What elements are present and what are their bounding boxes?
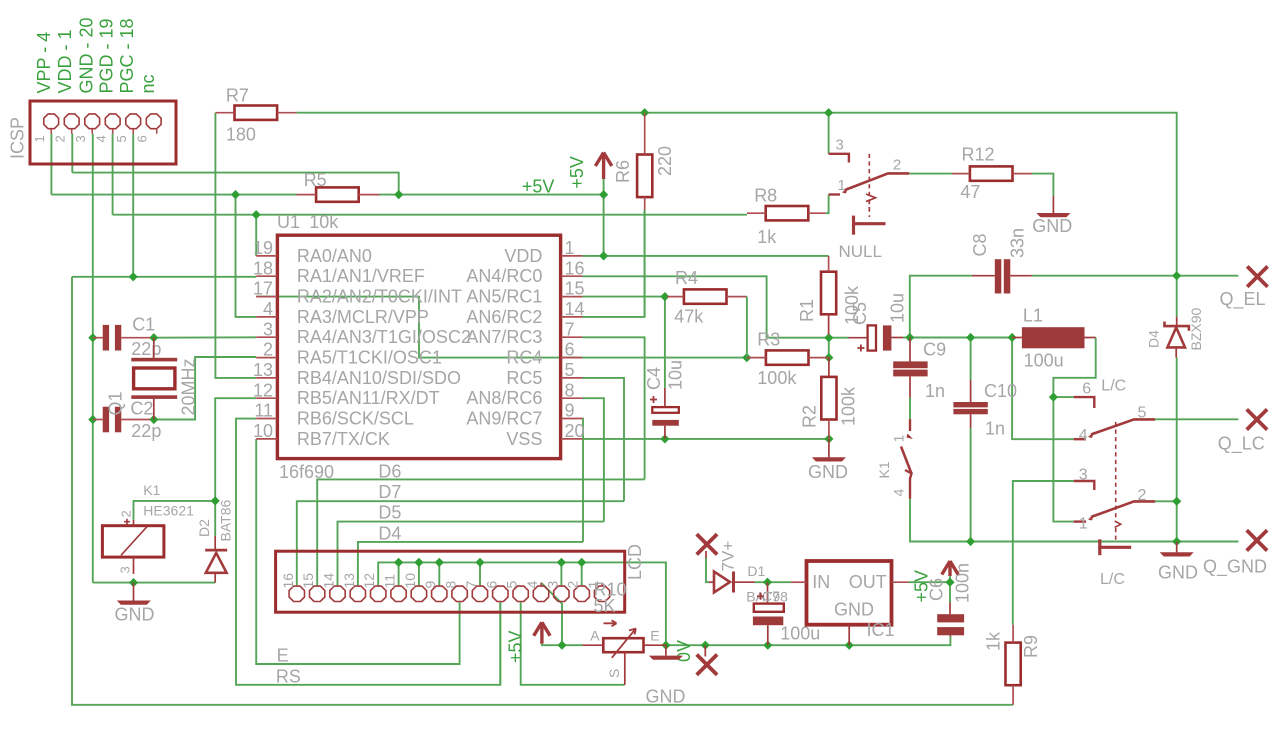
svg-text:L/C: L/C	[1100, 571, 1125, 588]
svg-text:15: 15	[565, 279, 585, 299]
wire GND rail at relay	[93, 582, 216, 584]
svg-text:4: 4	[94, 135, 109, 142]
junction	[1172, 497, 1181, 506]
wire MCLR drop from VPP net	[236, 195, 257, 317]
svg-text:+5V: +5V	[506, 630, 526, 663]
svg-text:D4: D4	[378, 524, 401, 544]
wire R12 right to GND	[1032, 174, 1054, 196]
svg-text:6: 6	[565, 340, 575, 360]
svg-text:20MHz: 20MHz	[179, 358, 199, 415]
switch NULL	[829, 154, 910, 235]
junction	[394, 558, 403, 567]
wire D7 line to LCD pin16	[297, 501, 624, 585]
svg-text:Q_EL: Q_EL	[1220, 289, 1266, 310]
wire node across to L1	[910, 337, 1012, 339]
wire PGD/RA0 net to R8	[113, 214, 747, 216]
supply +5V arrow at IC1	[942, 561, 958, 576]
junction	[394, 190, 403, 199]
wire RB7 pin10 to E line	[256, 439, 459, 664]
resistor R9	[1006, 625, 1021, 705]
svg-text:19: 19	[253, 238, 273, 258]
net 7V+	[697, 534, 717, 558]
svg-text:AN6/RC2: AN6/RC2	[466, 307, 542, 327]
junction	[763, 641, 772, 650]
wire LCD pin4 diagonal to +5V node	[541, 583, 562, 645]
wire AN5 pin15 to R4/C4	[583, 297, 665, 388]
svg-text:D6: D6	[378, 462, 401, 482]
wire NULL pin3 drop	[828, 113, 830, 154]
svg-text:Q_GND: Q_GND	[1203, 557, 1267, 578]
svg-text:10k: 10k	[309, 212, 339, 232]
svg-text:8: 8	[443, 581, 459, 589]
svg-text:RC5: RC5	[506, 368, 542, 388]
junction	[252, 210, 261, 219]
regulator IC1 box	[807, 561, 892, 625]
wire LCD bus stub	[438, 562, 440, 585]
junction	[966, 537, 975, 546]
svg-text:R8: R8	[754, 186, 777, 206]
svg-text:C4: C4	[644, 367, 664, 390]
svg-text:5: 5	[504, 581, 520, 589]
svg-text:9: 9	[422, 581, 438, 589]
junction	[824, 333, 833, 342]
svg-text:GND: GND	[1158, 563, 1198, 583]
connector LCD pads	[289, 583, 610, 602]
svg-text:1: 1	[32, 135, 47, 142]
svg-text:GND: GND	[808, 462, 848, 482]
svg-text:14: 14	[321, 573, 337, 589]
wire C9 down to K1 contact	[909, 376, 911, 397]
junction	[905, 333, 914, 342]
svg-text:C7: C7	[762, 588, 780, 604]
junction	[129, 578, 138, 587]
wire L1 right loop to LC switch	[1053, 338, 1095, 398]
svg-text:6: 6	[135, 135, 150, 142]
svg-text:100k: 100k	[757, 368, 797, 388]
wire +5V arrow to pot A	[542, 644, 583, 645]
wire C10 down to rail	[970, 338, 972, 381]
wire LCD pin6 down to RS line	[499, 602, 501, 685]
wire top +5V rail from R7 to right edge	[297, 113, 1177, 317]
svg-text:AN5/RC1: AN5/RC1	[466, 287, 542, 307]
wire R7 left vertical down to RB4 pin13	[215, 113, 256, 378]
labels ICSP pin nets	[34, 17, 158, 93]
svg-text:17: 17	[253, 279, 273, 299]
wire LCD pin5 down to pot wiper	[521, 602, 625, 685]
wire VDD net across to R5 right	[72, 173, 398, 195]
svg-text:5K: 5K	[594, 596, 616, 616]
svg-text:7: 7	[463, 581, 479, 589]
svg-text:BZX90: BZX90	[1188, 307, 1204, 350]
ground GND pot	[649, 645, 683, 660]
svg-text:4: 4	[263, 299, 273, 319]
svg-text:E: E	[650, 628, 659, 644]
svg-text:RA0/AN0: RA0/AN0	[297, 246, 372, 266]
capacitor C10	[953, 402, 987, 414]
wire NULL pin2 to R12	[909, 173, 952, 175]
svg-text:33n: 33n	[1008, 228, 1028, 258]
svg-text:Q_LC: Q_LC	[1218, 434, 1265, 455]
wire R4 right down to R3 node	[746, 297, 748, 358]
wire LCD bus stub	[418, 562, 420, 585]
wire pot E ground rail to C6	[666, 636, 951, 645]
junction	[845, 641, 854, 650]
IC1 pin GND stub	[848, 625, 850, 646]
switch L/C lower	[1074, 422, 1155, 555]
junction	[149, 333, 158, 342]
svg-text:RB6/SCK/SCL: RB6/SCK/SCL	[297, 409, 414, 429]
junction	[88, 415, 97, 424]
svg-text:2: 2	[893, 157, 901, 174]
wire ICSP pin3 GND down	[92, 134, 94, 583]
capacitor C8	[972, 259, 1032, 293]
svg-text:OUT: OUT	[849, 572, 887, 592]
junction	[599, 251, 608, 260]
capacitor C7	[753, 582, 784, 645]
svg-text:6: 6	[1082, 381, 1091, 398]
svg-text:+5V: +5V	[912, 570, 932, 603]
svg-text:220: 220	[655, 146, 675, 176]
diode D1	[709, 572, 755, 593]
junction	[557, 641, 566, 650]
svg-text:11: 11	[254, 401, 273, 421]
wire LC pin6 stub	[1053, 396, 1073, 398]
connector LCD box	[276, 551, 625, 612]
svg-text:nc: nc	[138, 74, 158, 93]
IC1 pin IN stub	[791, 581, 807, 583]
svg-text:RB7/TX/CK: RB7/TX/CK	[297, 429, 390, 449]
wire ICSP pin2 VDD down	[71, 134, 73, 173]
svg-text:11: 11	[382, 574, 398, 589]
ground GND relay	[117, 583, 151, 605]
capacitor C9	[893, 338, 927, 377]
svg-text:GND - 20: GND - 20	[77, 17, 97, 93]
wire ICSP pin1 VPP down	[50, 134, 52, 195]
svg-text:E: E	[277, 646, 289, 666]
svg-text:R1: R1	[797, 299, 817, 322]
ground GND Q_GND	[1160, 542, 1194, 557]
svg-text:47k: 47k	[674, 306, 704, 326]
svg-text:U1: U1	[277, 212, 300, 232]
svg-text:RA2/AN2/T0CKI/INT: RA2/AN2/T0CKI/INT	[297, 287, 462, 307]
svg-text:GND: GND	[1032, 216, 1072, 236]
svg-text:AN7/RC3: AN7/RC3	[466, 327, 542, 347]
junction	[414, 558, 423, 567]
IC1 pin OUT stub	[892, 581, 910, 583]
wire D4 line to LCD pin13	[358, 542, 583, 586]
resistor R1	[821, 256, 836, 335]
svg-text:12: 12	[361, 573, 377, 589]
wire AN9 pin9 to D4 line	[582, 419, 585, 542]
junction	[557, 558, 566, 567]
connector ICSP box	[30, 101, 176, 164]
wire LCD bus stub	[560, 562, 562, 585]
wire VSS pin20 to C4 and R2 ground node	[583, 438, 829, 440]
capacitor C1	[93, 325, 150, 351]
wire +5V node vertical	[949, 575, 951, 603]
svg-text:GND: GND	[834, 600, 874, 620]
svg-text:R5: R5	[304, 170, 327, 190]
junction	[149, 415, 158, 424]
svg-text:10: 10	[402, 573, 418, 589]
svg-text:RB5/AN11/RX/DT: RB5/AN11/RX/DT	[297, 388, 440, 408]
svg-text:K1: K1	[876, 461, 892, 478]
svg-text:A: A	[590, 628, 600, 644]
junction	[660, 292, 669, 301]
svg-text:6: 6	[483, 581, 499, 589]
svg-text:PGD - 19: PGD - 19	[96, 18, 116, 93]
junction	[742, 353, 751, 362]
wire crystal to RA5 pin2	[154, 357, 256, 420]
wire VPP net to R5 and MCLR	[51, 194, 296, 196]
svg-text:47: 47	[960, 182, 980, 202]
resistor R3	[747, 350, 829, 364]
svg-text:180: 180	[226, 125, 256, 145]
svg-text:13: 13	[341, 573, 357, 589]
junction	[660, 434, 669, 443]
capacitor C6	[937, 603, 964, 637]
U1 pin numbers and names	[253, 238, 585, 449]
junction	[435, 558, 444, 567]
svg-text:2: 2	[119, 510, 134, 517]
net 0V	[697, 645, 717, 675]
svg-text:HE3621: HE3621	[143, 503, 194, 519]
svg-text:7: 7	[565, 319, 575, 339]
net Q_EL	[1247, 266, 1267, 286]
svg-text:NULL: NULL	[839, 242, 882, 261]
junction	[129, 272, 138, 281]
ground GND R2	[812, 439, 846, 462]
svg-text:22p: 22p	[131, 339, 161, 359]
svg-text:K1: K1	[143, 482, 160, 498]
capacitor C2	[93, 407, 150, 433]
svg-text:D5: D5	[378, 503, 401, 523]
wire LCD ground bus	[378, 562, 666, 645]
wire LC pin6 node down to pin1	[1053, 397, 1073, 521]
svg-text:1k: 1k	[757, 227, 777, 247]
switch K1 contact	[901, 419, 913, 499]
svg-text:AN9/RC7: AN9/RC7	[466, 409, 542, 429]
svg-text:1n: 1n	[925, 381, 945, 401]
wire RA2 pin17 across IC to RC4 and R3	[256, 297, 747, 358]
svg-text:RC4: RC4	[506, 348, 542, 368]
svg-text:R3: R3	[757, 329, 780, 349]
junction	[475, 558, 484, 567]
wire C5 right to node	[903, 337, 910, 339]
svg-text:PGC - 18: PGC - 18	[117, 18, 137, 93]
svg-text:20: 20	[565, 421, 585, 441]
supply +5V arrow main	[595, 153, 611, 180]
svg-text:1: 1	[565, 238, 575, 258]
wire pin19 drop from PGD net	[255, 215, 257, 256]
wire AN8 pin8 to D5 line	[583, 398, 604, 521]
wire AN7 pin7 to D6 line	[583, 337, 645, 479]
diode D2	[205, 536, 227, 583]
svg-text:7V+: 7V+	[718, 541, 737, 572]
junction	[966, 333, 975, 342]
svg-text:10u: 10u	[666, 360, 686, 390]
wire 7V+ to D1	[706, 557, 709, 582]
svg-text:3: 3	[544, 581, 560, 589]
wire R8 right to NULL pin1	[826, 195, 829, 214]
wire R6 bottom green part	[644, 210, 646, 317]
svg-text:9: 9	[565, 401, 575, 421]
wire L1 left node down to LC pin4	[1012, 338, 1074, 440]
svg-text:3: 3	[73, 135, 88, 142]
resistor R7	[215, 106, 296, 120]
svg-text:2: 2	[565, 581, 581, 589]
svg-text:5: 5	[1138, 405, 1147, 422]
svg-text:D7: D7	[378, 482, 401, 502]
relay K1	[102, 520, 163, 574]
wire D1 to IC1 IN	[755, 581, 791, 583]
wire ICSP pin5 PGC down	[132, 134, 134, 277]
svg-text:C2: C2	[130, 399, 153, 419]
svg-text:IN: IN	[812, 572, 830, 592]
junction	[1049, 393, 1058, 402]
svg-text:Q1: Q1	[106, 391, 126, 415]
svg-text:R6: R6	[613, 160, 633, 183]
svg-text:2: 2	[263, 340, 273, 360]
svg-text:IC1: IC1	[867, 620, 895, 640]
wire VDD pin1 to R1 top	[583, 255, 829, 257]
svg-text:10: 10	[253, 421, 273, 441]
svg-text:1: 1	[891, 435, 907, 443]
svg-text:R2: R2	[800, 405, 820, 428]
svg-text:D1: D1	[747, 563, 765, 579]
wire ICSP pin4 PGD down	[112, 134, 114, 215]
wire C5 left node	[828, 335, 830, 358]
net Q_GND	[1247, 530, 1267, 550]
wire Q_EL vertical lower part	[1176, 358, 1178, 542]
svg-text:GND: GND	[115, 605, 155, 625]
connector LCD pad numbers	[280, 573, 601, 589]
svg-text:3: 3	[263, 319, 273, 339]
svg-text:13: 13	[253, 360, 273, 380]
svg-text:16f690: 16f690	[279, 462, 334, 482]
svg-text:S: S	[606, 669, 622, 678]
svg-text:RA1/AN1/VREF: RA1/AN1/VREF	[297, 266, 425, 286]
svg-text:3: 3	[118, 566, 133, 573]
switch L/C upper	[1074, 397, 1155, 439]
wire C10 bottom to rail	[970, 414, 972, 428]
svg-text:4: 4	[891, 489, 907, 497]
svg-text:L/C: L/C	[1101, 378, 1126, 395]
op-amp U1 PIC16F690 box	[277, 235, 560, 458]
svg-text:ICSP: ICSP	[8, 117, 28, 159]
crystal Q1	[131, 338, 177, 420]
svg-text:R7: R7	[226, 86, 249, 106]
svg-text:+5V: +5V	[522, 177, 555, 197]
junction	[945, 578, 954, 587]
junction	[824, 353, 833, 362]
svg-text:22p: 22p	[131, 421, 161, 441]
junction	[88, 333, 97, 342]
inductor L1	[1012, 327, 1096, 348]
svg-text:VDD: VDD	[504, 246, 542, 266]
ground GND R12	[1036, 196, 1070, 217]
svg-text:18: 18	[253, 258, 273, 278]
resistor R4	[667, 289, 747, 303]
wire C8 right to Q_EL	[1032, 275, 1239, 277]
svg-text:D2: D2	[196, 519, 212, 537]
svg-text:R4: R4	[675, 268, 698, 288]
supply +5V arrow at LCD	[534, 622, 550, 644]
svg-text:10u: 10u	[888, 293, 908, 323]
svg-text:RA4/AN3/T1GI/OSC2: RA4/AN3/T1GI/OSC2	[297, 327, 471, 347]
wire RA1 pin18 net	[72, 276, 256, 278]
connector ICSP pads	[44, 114, 161, 134]
wire R1 junction to C5	[829, 337, 849, 339]
junction	[231, 190, 240, 199]
svg-text:AN8/RC6: AN8/RC6	[466, 388, 542, 408]
wire RB6 pin11 to RS line	[236, 419, 500, 685]
svg-text:RS: RS	[276, 667, 301, 687]
capacitor C5	[849, 325, 904, 351]
svg-text:14: 14	[565, 299, 585, 319]
svg-text:15: 15	[300, 573, 316, 589]
resistor R5	[297, 187, 380, 201]
wire AN6 pin14 to R6	[583, 210, 645, 317]
wire LC pin3 to R9	[1013, 481, 1074, 625]
junction	[577, 558, 586, 567]
svg-text:16: 16	[565, 258, 585, 278]
net Q_LC	[1247, 409, 1267, 429]
svg-text:C5: C5	[850, 302, 870, 325]
potentiometer R10	[583, 620, 666, 685]
svg-text:+5V: +5V	[567, 156, 587, 189]
svg-text:C9: C9	[923, 340, 946, 360]
svg-text:VSS: VSS	[506, 429, 542, 449]
svg-text:VDD - 1: VDD - 1	[55, 29, 75, 93]
svg-text:C10: C10	[984, 381, 1017, 401]
junction	[661, 641, 670, 650]
svg-text:12: 12	[253, 380, 273, 400]
svg-text:8: 8	[565, 380, 575, 400]
svg-text:R12: R12	[962, 145, 995, 165]
wire RB5 pin12 to relay node	[215, 398, 256, 501]
svg-text:2: 2	[1138, 487, 1147, 504]
wire C1 to RA4 pin3	[154, 336, 256, 338]
svg-text:2: 2	[53, 135, 68, 142]
wire D6 line to LCD pin15	[317, 479, 644, 585]
svg-text:5: 5	[565, 360, 575, 380]
svg-text:GND: GND	[646, 687, 686, 707]
svg-text:BAT86: BAT86	[218, 500, 234, 542]
resistor R2	[821, 358, 836, 439]
junction	[1008, 333, 1017, 342]
wire +5V arrow down to VDD pin wire	[603, 179, 605, 256]
svg-text:1: 1	[838, 177, 846, 194]
wire node to C8 up	[910, 276, 972, 338]
junction	[211, 496, 220, 505]
svg-text:RA3/MCLR/VPP: RA3/MCLR/VPP	[297, 307, 429, 327]
svg-text:RA5/T1CKI/OSC1: RA5/T1CKI/OSC1	[297, 348, 442, 368]
svg-text:RB4/AN10/SDI/SDO: RB4/AN10/SDI/SDO	[297, 368, 461, 388]
wire RA1 long left vertical to bottom rail	[72, 277, 1013, 705]
U1 pin stubs	[256, 256, 582, 439]
svg-text:3: 3	[836, 137, 844, 154]
svg-text:LCD: LCD	[625, 544, 645, 580]
wire LCD bus stub	[581, 562, 583, 585]
wire LC pin5 to Q_LC	[1155, 418, 1238, 420]
wire RC5 pin5 to D7 line	[583, 378, 625, 501]
resistor R6	[637, 113, 652, 210]
junction	[701, 641, 710, 650]
resistor R8	[747, 206, 826, 220]
wire AN4 pin16 to R1 C5 node	[583, 276, 829, 337]
wire relay coil pin2 to node	[134, 501, 216, 536]
